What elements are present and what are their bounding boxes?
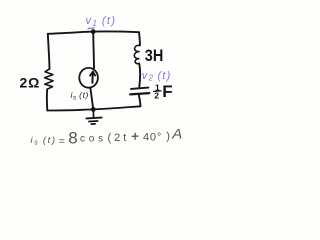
node B junction dot bottom (ground node) — [91, 107, 96, 112]
wire left branch upper — [48, 34, 50, 69]
svg-text:3H: 3H — [145, 46, 164, 65]
wire middle branch lower — [90, 88, 93, 110]
svg-text:v2 (t): v2 (t) — [142, 70, 172, 83]
equation is(t) = 8 cos(2t + 40deg) A — [31, 126, 183, 148]
svg-text:cos: cos — [80, 134, 107, 145]
ground symbol — [86, 110, 101, 125]
resistor R 2ohm zigzag — [45, 69, 54, 89]
svg-text:(2t: (2t — [108, 132, 130, 144]
blue tick below v1 label — [88, 28, 94, 29]
inductor L 3H coils — [134, 45, 140, 63]
wire right branch middle — [138, 64, 141, 87]
wire top rail (node v1) — [48, 31, 139, 33]
svg-text:2Ω: 2Ω — [20, 75, 41, 91]
svg-text:A: A — [171, 126, 182, 142]
svg-text:2: 2 — [154, 91, 159, 101]
current source I1 circle — [79, 68, 98, 88]
node A junction dot top — [91, 29, 96, 34]
svg-text:is (t): is (t) — [31, 135, 57, 147]
current source arrow up — [91, 72, 93, 83]
wire middle branch upper — [92, 32, 95, 68]
svg-text:=: = — [59, 136, 65, 148]
svg-text:): ) — [166, 131, 170, 143]
svg-text:F: F — [162, 82, 172, 101]
capacitor C plates — [131, 88, 148, 89]
wire left branch lower — [46, 89, 48, 110]
svg-text:is (t): is (t) — [71, 90, 89, 102]
label 1/2 F — [154, 82, 173, 101]
wire right branch lower — [139, 95, 141, 107]
svg-text:v1 (t): v1 (t) — [86, 15, 117, 28]
wire bottom rail — [47, 106, 140, 110]
wire right branch upper — [138, 32, 141, 45]
svg-text:8: 8 — [68, 129, 77, 148]
svg-text:40°: 40° — [143, 132, 162, 144]
